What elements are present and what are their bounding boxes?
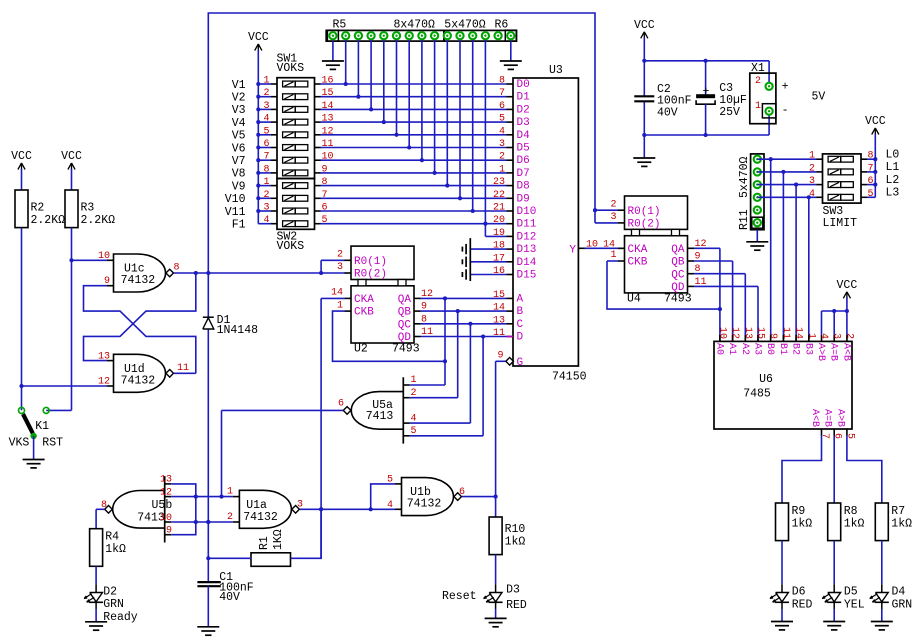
svg-text:1: 1	[610, 250, 616, 261]
svg-text:VOKS: VOKS	[277, 62, 305, 75]
svg-text:A>B: A>B	[834, 409, 845, 427]
svg-text:15: 15	[322, 88, 334, 99]
svg-text:V6: V6	[232, 142, 246, 155]
svg-text:74132: 74132	[407, 498, 442, 511]
svg-text:VCC: VCC	[61, 150, 82, 163]
svg-text:V11: V11	[225, 206, 246, 219]
svg-text:B2: B2	[790, 343, 801, 355]
svg-text:8: 8	[499, 76, 505, 87]
svg-text:8: 8	[174, 262, 180, 273]
svg-text:V5: V5	[232, 130, 246, 143]
svg-text:5: 5	[322, 215, 328, 226]
svg-text:B3: B3	[802, 343, 813, 355]
svg-text:10: 10	[716, 327, 727, 339]
svg-text:V2: V2	[232, 92, 246, 105]
svg-text:4: 4	[818, 333, 829, 339]
svg-text:VKS: VKS	[9, 436, 30, 449]
svg-text:2.2KΩ: 2.2KΩ	[31, 214, 66, 227]
svg-text:12: 12	[160, 487, 172, 498]
svg-text:23: 23	[493, 177, 505, 188]
svg-text:D1: D1	[517, 92, 531, 104]
svg-text:9: 9	[497, 351, 503, 362]
svg-text:Y: Y	[569, 244, 576, 256]
svg-text:6: 6	[499, 101, 505, 112]
svg-text:L2: L2	[886, 174, 900, 187]
svg-text:13: 13	[742, 327, 753, 339]
svg-text:A<B: A<B	[840, 343, 851, 361]
svg-text:R5: R5	[333, 19, 347, 32]
svg-text:D0: D0	[517, 79, 530, 91]
svg-text:2: 2	[843, 333, 854, 339]
svg-text:D12: D12	[517, 231, 537, 243]
svg-text:13: 13	[160, 475, 172, 486]
svg-text:10: 10	[160, 513, 172, 524]
svg-text:A: A	[517, 293, 524, 305]
svg-text:QC: QC	[671, 269, 685, 281]
svg-text:15: 15	[755, 327, 766, 339]
svg-text:4: 4	[809, 189, 815, 200]
svg-text:74132: 74132	[243, 511, 278, 524]
svg-text:R0(1): R0(1)	[628, 206, 661, 218]
svg-text:12: 12	[729, 327, 740, 339]
svg-text:3: 3	[337, 262, 343, 273]
svg-text:16: 16	[322, 76, 334, 87]
svg-text:VOKS: VOKS	[277, 240, 305, 253]
svg-text:3: 3	[263, 203, 269, 214]
svg-text:Ready: Ready	[103, 611, 138, 624]
svg-text:7: 7	[263, 152, 269, 163]
svg-text:25V: 25V	[719, 106, 740, 119]
svg-text:6: 6	[263, 139, 269, 150]
svg-text:RST: RST	[42, 436, 63, 449]
svg-text:A2: A2	[739, 343, 750, 355]
svg-text:7493: 7493	[664, 293, 692, 306]
svg-text:18: 18	[493, 241, 505, 252]
svg-text:GRN: GRN	[892, 599, 913, 612]
svg-text:6: 6	[322, 203, 328, 214]
svg-text:1: 1	[755, 101, 761, 112]
svg-text:7485: 7485	[743, 388, 771, 401]
svg-text:-: -	[782, 104, 789, 117]
svg-text:11: 11	[780, 327, 791, 339]
svg-text:5: 5	[868, 189, 874, 200]
svg-text:22: 22	[493, 190, 505, 201]
svg-text:D2: D2	[517, 104, 530, 116]
svg-text:R0(2): R0(2)	[628, 219, 661, 231]
svg-text:LIMIT: LIMIT	[823, 217, 858, 230]
svg-text:1kΩ: 1kΩ	[105, 543, 126, 556]
svg-text:40V: 40V	[657, 107, 678, 120]
svg-text:13: 13	[493, 315, 505, 326]
svg-text:D8: D8	[517, 181, 530, 193]
svg-text:G: G	[517, 357, 524, 369]
svg-text:11: 11	[493, 328, 505, 339]
svg-text:D2: D2	[103, 586, 117, 599]
svg-text:D9: D9	[517, 193, 530, 205]
svg-text:K1: K1	[35, 420, 49, 433]
svg-text:1: 1	[809, 151, 815, 162]
svg-text:16: 16	[493, 266, 505, 277]
svg-text:9: 9	[166, 526, 172, 537]
svg-text:RED: RED	[506, 599, 527, 612]
svg-text:3: 3	[809, 176, 815, 187]
svg-text:CKB: CKB	[354, 307, 374, 319]
svg-text:A0: A0	[713, 343, 724, 355]
svg-text:A=B: A=B	[822, 409, 833, 427]
svg-text:13: 13	[322, 114, 334, 125]
svg-text:20: 20	[493, 215, 505, 226]
svg-text:74150: 74150	[552, 371, 587, 384]
svg-text:X1: X1	[751, 62, 765, 75]
svg-text:C: C	[517, 319, 524, 331]
svg-text:7: 7	[499, 88, 505, 99]
svg-text:2: 2	[809, 163, 815, 174]
svg-text:F1: F1	[232, 219, 246, 232]
svg-text:D6: D6	[517, 155, 530, 167]
svg-text:VCC: VCC	[11, 150, 32, 163]
svg-text:B: B	[517, 306, 524, 318]
svg-text:2: 2	[499, 152, 505, 163]
svg-text:21: 21	[493, 203, 505, 214]
svg-text:D7: D7	[517, 168, 530, 180]
svg-text:2: 2	[610, 199, 616, 210]
svg-text:A>B: A>B	[815, 343, 826, 361]
svg-text:VCC: VCC	[634, 19, 655, 32]
svg-text:CKA: CKA	[628, 244, 648, 256]
svg-text:D11: D11	[517, 219, 537, 231]
svg-text:1: 1	[337, 300, 343, 311]
svg-text:V7: V7	[232, 155, 246, 168]
svg-text:V1: V1	[232, 79, 246, 92]
svg-text:4: 4	[499, 126, 505, 137]
svg-text:14: 14	[322, 101, 334, 112]
svg-text:D10: D10	[517, 206, 537, 218]
svg-text:D3: D3	[506, 584, 520, 597]
svg-text:R10: R10	[505, 523, 526, 536]
svg-text:9: 9	[322, 164, 328, 175]
svg-text:U5b: U5b	[152, 499, 173, 512]
svg-text:8: 8	[868, 151, 874, 162]
svg-text:V8: V8	[232, 168, 246, 181]
svg-text:2: 2	[263, 88, 269, 99]
svg-text:L3: L3	[886, 187, 900, 200]
svg-text:RED: RED	[792, 599, 813, 612]
svg-text:U4: U4	[627, 293, 641, 306]
svg-text:1KΩ: 1KΩ	[272, 529, 285, 550]
svg-text:5: 5	[499, 114, 505, 125]
svg-text:R8: R8	[844, 505, 858, 518]
svg-text:R9: R9	[792, 505, 806, 518]
svg-text:GRN: GRN	[103, 598, 124, 611]
svg-text:10: 10	[322, 152, 334, 163]
svg-text:YEL: YEL	[844, 599, 865, 612]
svg-text:QB: QB	[398, 307, 412, 319]
svg-text:QA: QA	[398, 294, 412, 306]
svg-text:12: 12	[98, 377, 110, 388]
svg-text:2: 2	[755, 76, 761, 87]
svg-text:B1: B1	[777, 343, 788, 355]
svg-text:V9: V9	[232, 180, 246, 193]
svg-text:R0(1): R0(1)	[354, 256, 387, 268]
svg-text:D6: D6	[792, 586, 806, 599]
svg-text:R2: R2	[31, 202, 45, 215]
svg-text:7493: 7493	[392, 343, 420, 356]
svg-text:D4: D4	[517, 130, 531, 142]
svg-text:R3: R3	[81, 202, 95, 215]
svg-text:+: +	[782, 81, 789, 94]
svg-text:A3: A3	[752, 343, 763, 355]
svg-text:L0: L0	[886, 148, 900, 161]
svg-text:4: 4	[263, 114, 269, 125]
svg-text:+: +	[703, 86, 710, 99]
svg-text:7: 7	[819, 433, 830, 439]
svg-text:7: 7	[868, 163, 874, 174]
svg-text:5x470Ω: 5x470Ω	[738, 156, 751, 198]
svg-text:Reset: Reset	[442, 590, 477, 603]
svg-text:5: 5	[263, 126, 269, 137]
svg-text:U3: U3	[549, 64, 563, 77]
svg-text:1kΩ: 1kΩ	[792, 517, 813, 530]
svg-text:1: 1	[805, 333, 816, 339]
svg-text:3: 3	[263, 101, 269, 112]
svg-text:R6: R6	[495, 19, 509, 32]
svg-text:6: 6	[868, 176, 874, 187]
svg-text:7: 7	[322, 190, 328, 201]
svg-text:SW3: SW3	[823, 205, 844, 218]
svg-text:D5: D5	[517, 143, 530, 155]
svg-text:1: 1	[499, 164, 505, 175]
svg-text:V4: V4	[232, 117, 246, 130]
svg-text:U2: U2	[354, 343, 368, 356]
svg-text:QB: QB	[671, 257, 685, 269]
svg-text:10: 10	[98, 251, 110, 262]
svg-text:74132: 74132	[121, 374, 156, 387]
svg-text:D4: D4	[892, 586, 906, 599]
svg-text:CKA: CKA	[354, 294, 374, 306]
svg-text:5x470Ω: 5x470Ω	[444, 19, 486, 32]
svg-text:U6: U6	[759, 373, 773, 386]
svg-text:V3: V3	[232, 104, 246, 117]
svg-text:40V: 40V	[219, 591, 240, 604]
svg-text:R11: R11	[738, 209, 751, 230]
svg-text:VCC: VCC	[865, 115, 886, 128]
svg-text:R4: R4	[105, 531, 119, 544]
svg-text:12: 12	[322, 126, 334, 137]
svg-text:5: 5	[844, 433, 855, 439]
svg-text:3: 3	[831, 333, 842, 339]
svg-text:1: 1	[263, 76, 269, 87]
svg-text:A1: A1	[726, 343, 737, 355]
svg-text:3: 3	[610, 212, 616, 223]
svg-text:15: 15	[493, 290, 505, 301]
svg-text:8x470Ω: 8x470Ω	[394, 19, 436, 32]
svg-text:R1: R1	[258, 536, 271, 550]
svg-text:74132: 74132	[121, 274, 156, 287]
svg-text:CKB: CKB	[628, 257, 648, 269]
svg-text:2: 2	[337, 250, 343, 261]
svg-text:19: 19	[493, 228, 505, 239]
svg-text:VCC: VCC	[248, 31, 269, 44]
svg-text:L1: L1	[886, 161, 900, 174]
svg-text:QA: QA	[671, 244, 685, 256]
svg-text:A<B: A<B	[809, 409, 820, 427]
svg-text:R0(2): R0(2)	[354, 269, 387, 281]
svg-text:1: 1	[263, 177, 269, 188]
svg-text:2.2KΩ: 2.2KΩ	[81, 214, 116, 227]
svg-text:11: 11	[322, 139, 334, 150]
svg-text:D15: D15	[517, 270, 537, 282]
svg-text:1kΩ: 1kΩ	[891, 517, 912, 530]
svg-text:6: 6	[338, 399, 344, 410]
svg-text:3: 3	[499, 139, 505, 150]
svg-text:6: 6	[832, 433, 843, 439]
svg-text:2: 2	[263, 190, 269, 201]
svg-text:D14: D14	[517, 257, 537, 269]
svg-text:A=B: A=B	[828, 343, 839, 361]
svg-text:D13: D13	[517, 244, 537, 256]
svg-text:7413: 7413	[366, 410, 394, 423]
svg-text:B0: B0	[764, 343, 775, 355]
svg-text:4: 4	[263, 215, 269, 226]
svg-text:14: 14	[493, 303, 505, 314]
svg-text:5V: 5V	[812, 91, 826, 104]
svg-text:VCC: VCC	[837, 279, 858, 292]
svg-text:9: 9	[767, 333, 778, 339]
svg-text:14: 14	[331, 288, 343, 299]
svg-text:8: 8	[263, 164, 269, 175]
svg-text:V10: V10	[225, 193, 246, 206]
svg-text:1kΩ: 1kΩ	[844, 517, 865, 530]
svg-text:8: 8	[322, 177, 328, 188]
svg-text:1N4148: 1N4148	[217, 324, 259, 337]
svg-text:D5: D5	[844, 586, 858, 599]
svg-text:D: D	[517, 332, 524, 344]
svg-text:1kΩ: 1kΩ	[505, 535, 526, 548]
svg-text:17: 17	[493, 253, 505, 264]
svg-text:R7: R7	[891, 505, 905, 518]
svg-text:D3: D3	[517, 117, 530, 129]
svg-text:QC: QC	[398, 319, 412, 331]
svg-text:14: 14	[793, 327, 804, 339]
